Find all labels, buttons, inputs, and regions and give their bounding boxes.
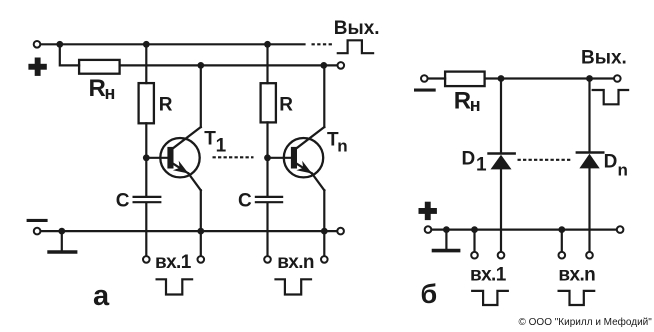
node junction collector T1 [197,62,204,69]
node junction R1 top [143,41,150,48]
wire bottom rail circuit b [432,229,617,231]
node junction Dn top [586,75,593,82]
resistor RH circuit b [445,72,485,87]
svg-text:н: н [470,95,481,115]
terminal + input circuit a [34,41,41,48]
svg-text:D: D [462,148,476,169]
terminal bottom right circuit a [337,228,344,235]
pulse symbol input na (negative) [276,279,312,294]
node junction D1 top [498,75,505,82]
diode Dn [577,79,603,252]
node junction input nb [558,226,565,233]
node base Tn [264,154,271,161]
label minus terminal b [414,89,436,92]
svg-text:n: n [337,137,347,156]
wire stub input nb [561,230,563,252]
resistor R2 [261,83,276,122]
svg-text:вх.1: вх.1 [155,252,192,273]
terminal - input circuit a [34,228,41,235]
wire collector Tn [323,65,325,127]
node junction ground b [443,226,450,233]
node base T1 [143,154,150,161]
svg-text:D: D [604,152,618,173]
svg-text:Т: Т [204,128,216,149]
svg-text:© ООО "Кирилл и Мефодий": © ООО "Кирилл и Мефодий" [519,316,653,328]
wire bottom rail circuit a [41,230,337,232]
svg-text:б: б [421,279,438,309]
wire base Tn [268,157,292,159]
wire emitter Tn [323,190,325,231]
wire emitter Tn stub to input terminal [323,231,325,256]
svg-text:R: R [89,75,106,102]
svg-text:вх.1: вх.1 [470,264,507,285]
terminal input 1b left [471,252,478,259]
pulse symbol input nb (negative) [559,291,595,305]
pulse symbol input 1b (negative) [472,291,508,305]
wire cap C2 bottom lead to input terminal [266,203,268,255]
svg-text:вх.n: вх.n [277,252,314,273]
pulse symbol output b (negative) [593,90,628,104]
terminal output circuit a [338,62,345,69]
terminal input 1b right [498,252,505,259]
wire collector T1 [200,65,202,127]
svg-text:1: 1 [216,135,227,156]
wire plus drop to second rail a [60,44,79,65]
terminal - input circuit b [421,75,428,82]
terminal input nb left [559,252,566,259]
terminal input na right [321,256,328,263]
label plus terminal b [419,202,437,220]
wire emitter T1 stub to input terminal [200,231,202,256]
svg-text:C: C [116,190,130,211]
wire R2 bottom lead to base node [266,122,268,157]
label minus terminal a [27,219,48,222]
node junction plus-drop a [56,41,63,48]
svg-text:н: н [105,83,116,103]
transistor T1 [160,127,201,190]
wire R1 bottom lead to base node [145,123,147,158]
wire dashes to output a [312,43,334,45]
wire R1 top lead [145,44,147,83]
node junction emitter T1 [197,228,204,235]
svg-text:n: n [618,160,628,179]
node junction R2 top [264,41,271,48]
terminal input 1a right [198,256,205,263]
wire emitter T1 [200,190,202,231]
svg-text:Вых.: Вых. [581,47,627,68]
wire dashes between T1 and Tn [213,156,254,158]
pulse symbol output a (positive) [338,40,373,53]
label plus terminal a [28,58,46,76]
wire dashes between D1 and Dn [518,159,571,161]
svg-text:C: C [238,190,252,211]
terminal + input circuit b [425,226,432,233]
capacitor C2 [256,197,282,202]
svg-text:Вых.: Вых. [334,18,380,39]
capacitor C1 [134,197,161,202]
svg-text:R: R [454,88,471,115]
ground circuit a [49,231,76,252]
diode D1 [489,79,515,252]
node junction collector Tn [320,62,327,69]
wire cap C1 top lead [145,158,147,196]
terminal input nb right [586,252,593,259]
wire second rail (output rail) a [120,64,338,66]
terminal output circuit b [614,75,621,82]
svg-text:а: а [93,280,110,312]
ground circuit b [434,230,459,251]
wire cap C2 top lead [266,158,268,196]
svg-text:R: R [159,94,173,115]
resistor RH circuit a [79,60,120,74]
wire base T1 [146,157,168,159]
wire cap C1 bottom lead to input terminal [145,203,147,255]
node junction ground a [58,228,65,235]
svg-text:вх.n: вх.n [558,264,595,285]
wire R2 top lead [266,44,268,83]
wire stub input 1b [473,230,475,252]
svg-text:1: 1 [476,155,487,176]
terminal input 1a left [143,256,150,263]
node junction input 1b [471,226,478,233]
terminal bottom right circuit b [617,226,624,233]
node junction emitter Tn [321,228,328,235]
resistor R1 [139,83,154,123]
wire top rail circuit b [485,77,614,79]
svg-text:R: R [279,94,293,115]
terminal input na left [264,256,271,263]
transistor Tn [284,127,325,190]
pulse symbol input 1a (negative) [157,279,193,294]
wire minus to RH b [428,77,445,79]
wire top rail circuit a [41,43,305,45]
